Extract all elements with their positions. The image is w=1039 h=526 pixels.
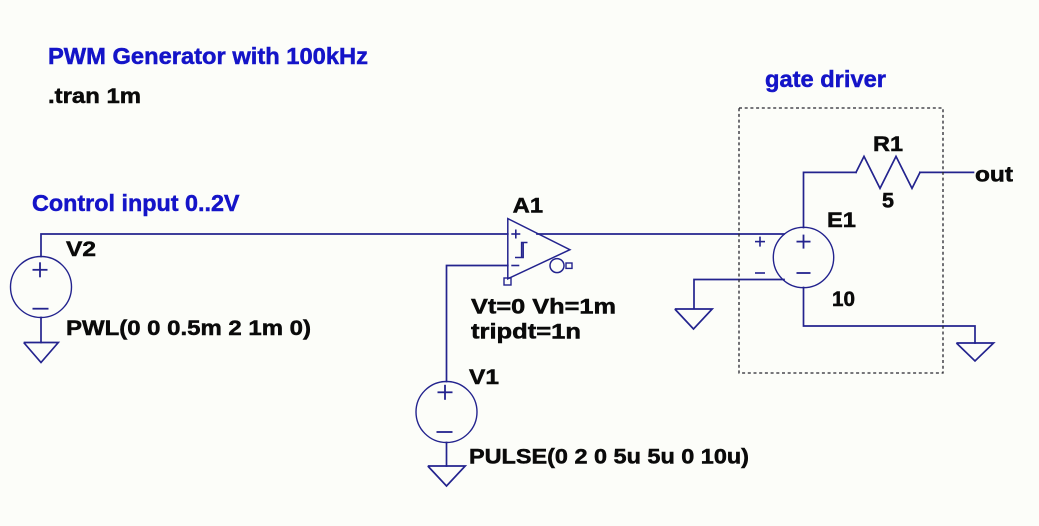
wire V1 bottom to ground (446, 443, 448, 467)
resistor R1 zigzag body (856, 156, 920, 188)
wire E1 - control to ground (694, 280, 784, 309)
V1 minus sign (437, 431, 453, 433)
V2 plus sign (33, 262, 48, 277)
wire V2 bottom to ground (40, 318, 42, 343)
wire R1 right to out (920, 171, 974, 173)
svg-text:out: out (975, 163, 1013, 187)
V2 minus sign (33, 308, 49, 310)
comparator A1 triangle (508, 219, 570, 279)
E1 inner minus sign (797, 272, 811, 274)
E1 control plus sign (755, 237, 765, 247)
voltage source V2 circle (11, 257, 72, 318)
A1 minus input sign (511, 265, 519, 267)
wire V2 top to comparator + input (41, 234, 508, 257)
svg-text:10: 10 (832, 287, 855, 311)
svg-text:PWL(0 0 0.5m 2 1m 0): PWL(0 0 0.5m 2 1m 0) (66, 316, 311, 340)
svg-text:.tran 1m: .tran 1m (48, 84, 141, 108)
A1 plus input sign (511, 230, 520, 239)
E source E1 circle (773, 227, 833, 287)
ground at E1 - control (675, 309, 712, 329)
E1 inner plus sign (797, 235, 811, 249)
dashed gate driver box (739, 108, 943, 373)
svg-text:V2: V2 (66, 237, 96, 261)
V1 plus sign (438, 385, 453, 400)
svg-text:Vt=0 Vh=1m: Vt=0 Vh=1m (471, 295, 616, 319)
A1 schmitt hysteresis glyph (515, 243, 528, 258)
svg-text:E1: E1 (827, 208, 856, 232)
svg-text:Control input 0..2V: Control input 0..2V (32, 190, 240, 216)
voltage source V1 circle (416, 382, 477, 443)
wire E1 top to resistor R1 (804, 172, 857, 227)
ground under V1 (428, 466, 465, 486)
svg-text:tripdt=1n: tripdt=1n (471, 320, 581, 344)
A1 inverted output bubble (550, 259, 564, 273)
svg-text:5: 5 (882, 189, 894, 213)
svg-text:R1: R1 (873, 132, 903, 156)
E1 control minus sign (755, 272, 765, 274)
wire comparator - input to V1 (447, 266, 508, 382)
ground bottom right (956, 343, 993, 361)
wire E1 bottom to right ground (804, 288, 976, 344)
svg-text:V1: V1 (469, 365, 499, 389)
A1 unconnected pin square at bottom vertex (504, 278, 511, 285)
svg-text:PULSE(0 2 0 5u 5u 0 10u): PULSE(0 2 0 5u 5u 0 10u) (469, 445, 749, 469)
svg-text:gate driver: gate driver (765, 66, 886, 92)
ground under V2 (24, 343, 59, 363)
wire comparator output to E1 + control (537, 233, 784, 235)
svg-text:PWM Generator with 100kHz: PWM Generator with 100kHz (48, 43, 368, 69)
svg-text:A1: A1 (513, 193, 544, 217)
A1 unconnected pin square at bubble (566, 263, 572, 268)
